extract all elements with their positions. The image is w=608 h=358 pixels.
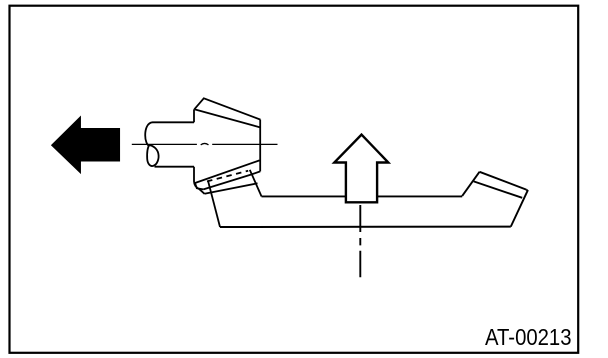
shaft top line with end arc xyxy=(145,122,194,146)
flange bottom edge xyxy=(203,175,251,190)
body left edge upper xyxy=(193,109,195,122)
bracket arm right diagonal xyxy=(250,170,262,197)
shaft end ellipse xyxy=(147,145,158,166)
flange right end cap xyxy=(251,171,260,174)
vertical dash-dot centerline xyxy=(359,205,361,277)
flange top edge xyxy=(195,160,260,183)
flange left end cap xyxy=(195,183,203,189)
body top face xyxy=(194,98,260,127)
lever end strip inner xyxy=(474,181,523,197)
body left edge lower with corner xyxy=(194,167,205,194)
lever right up-diagonal xyxy=(462,172,479,196)
svg-text:AT-00213: AT-00213 xyxy=(485,324,572,350)
shaft bottom line xyxy=(155,166,195,168)
lever right edge xyxy=(511,190,528,227)
horizontal centerline xyxy=(132,143,278,145)
flange hidden dashed line xyxy=(207,171,248,182)
lever top edge xyxy=(262,195,463,197)
centerline bump arc xyxy=(201,143,209,144)
white up arrow xyxy=(334,135,388,203)
bracket lower edge under flange xyxy=(205,183,258,194)
lever bottom edge xyxy=(220,226,511,228)
body right edge xyxy=(259,120,261,172)
bracket arm left edge xyxy=(208,181,220,227)
black arrow xyxy=(52,117,119,172)
lever end strip top xyxy=(480,172,527,190)
